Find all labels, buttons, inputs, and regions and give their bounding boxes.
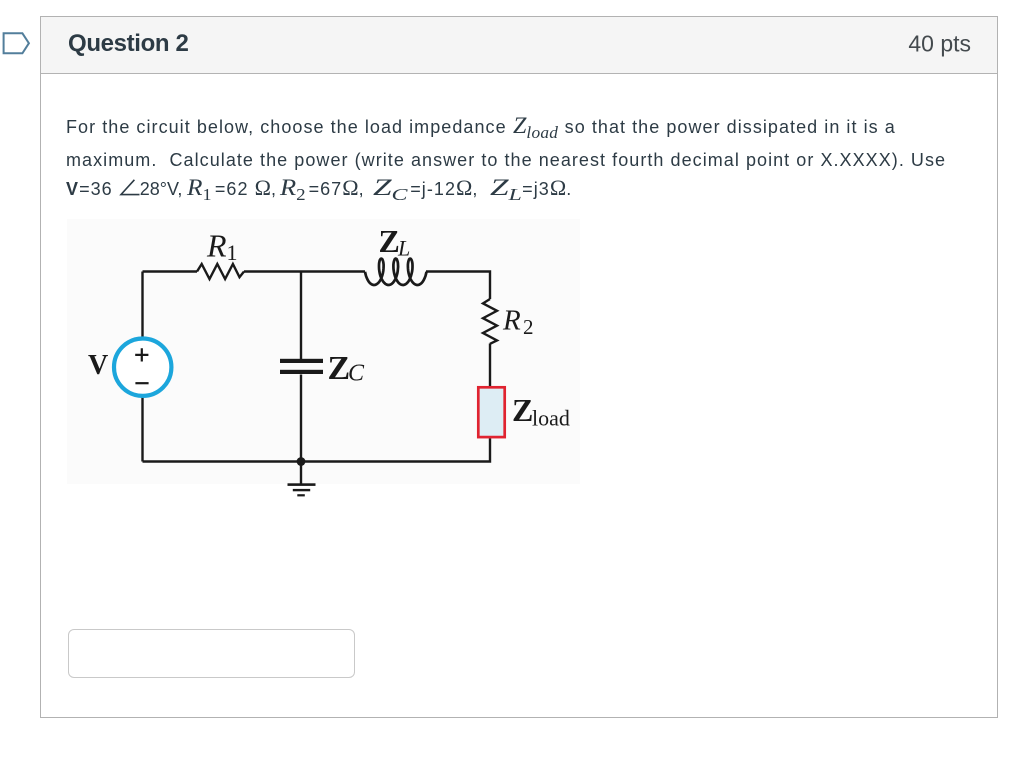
svg-text:C: C	[348, 360, 365, 386]
svg-text:R: R	[502, 305, 521, 337]
svg-text:L: L	[397, 236, 410, 261]
svg-text:R: R	[206, 227, 227, 263]
svg-text:Z: Z	[512, 392, 533, 428]
svg-text:V: V	[88, 350, 108, 381]
svg-text:load: load	[532, 406, 570, 431]
svg-text:Z: Z	[379, 223, 400, 259]
svg-text:1: 1	[227, 240, 238, 265]
svg-text:Z: Z	[328, 350, 351, 387]
svg-text:2: 2	[523, 315, 534, 339]
